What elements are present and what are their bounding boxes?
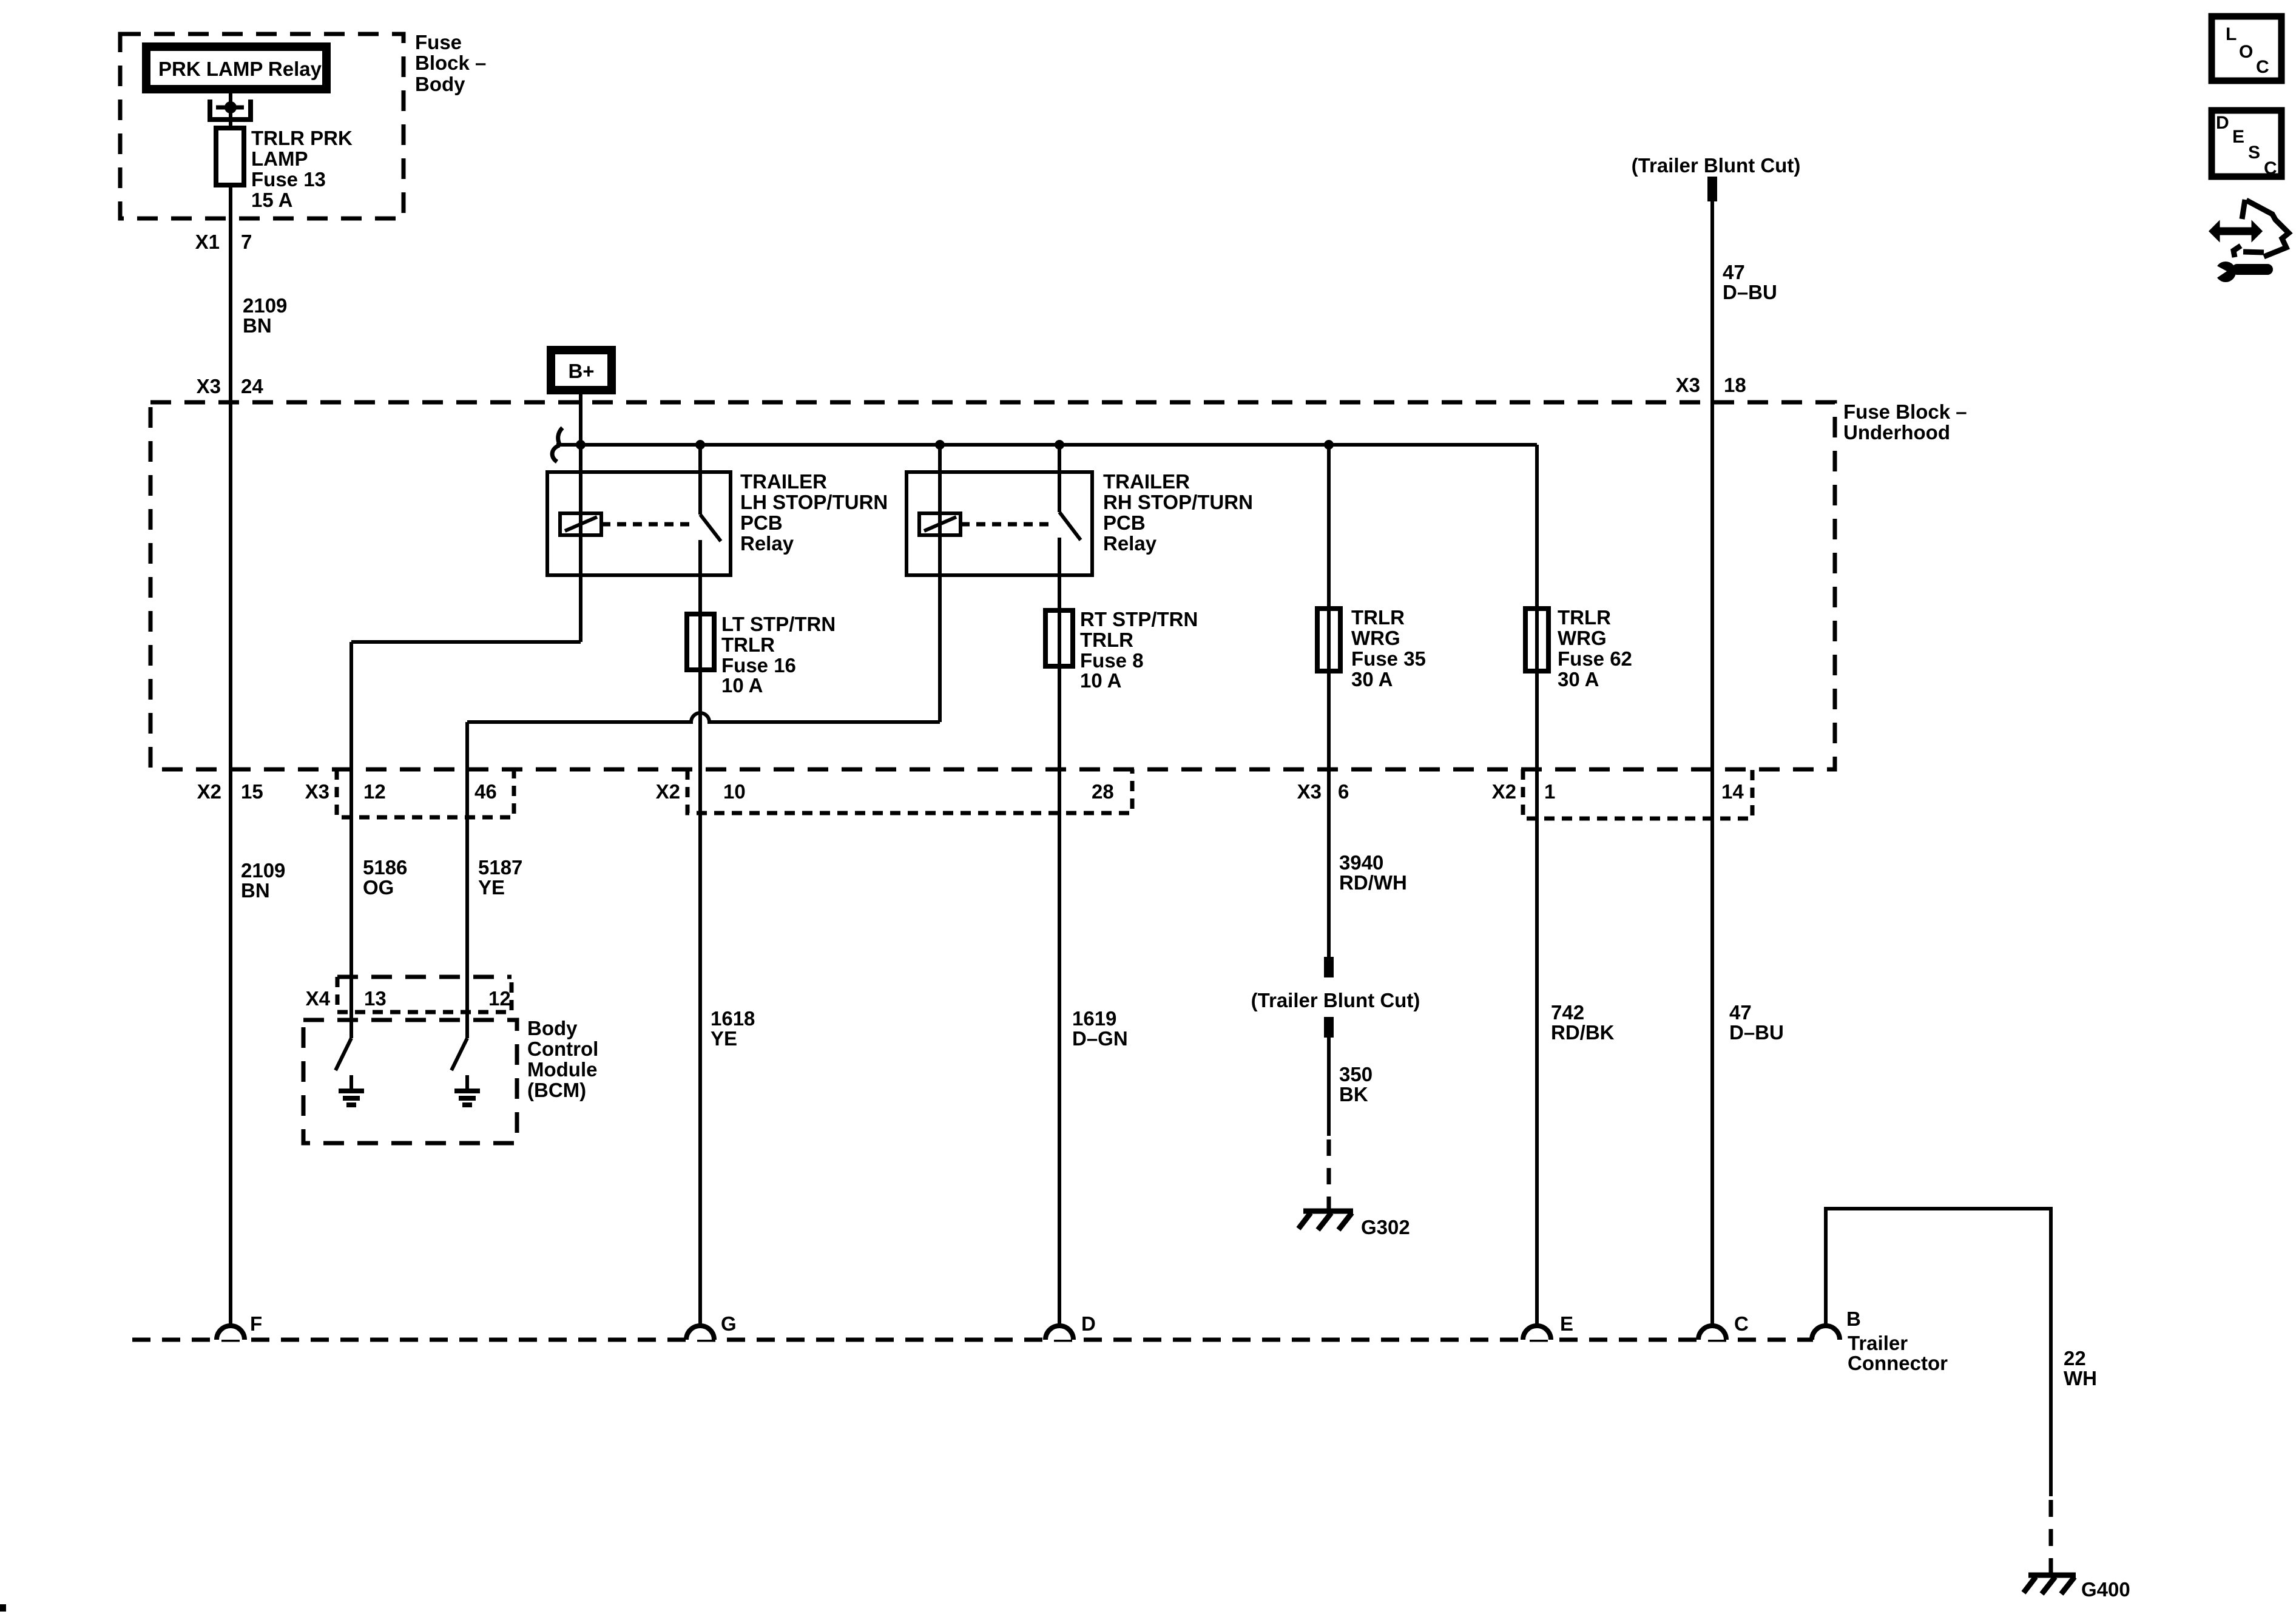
wire 47 D-BU: from blunt cut to trailer connector C	[1710, 201, 1714, 1326]
stray mark bottom-left	[0, 1604, 6, 1612]
relay K1: TRAILER LH STOP/TURN PCB Relay	[547, 470, 888, 575]
wire: LH switch feed from bus	[698, 445, 702, 515]
svg-text:TRLR: TRLR	[721, 633, 775, 656]
junction node: bus/B+	[576, 440, 586, 450]
svg-text:30 A: 30 A	[1558, 668, 1599, 690]
connector X2 box (pins 10,28) underhood	[687, 769, 1132, 813]
pin X1 7	[195, 231, 252, 253]
blunt cut terminal (47 D-BU top)	[1707, 177, 1717, 201]
DESC icon box	[2212, 110, 2281, 178]
fuse block underhood box	[150, 402, 1835, 769]
wire: LH coil feed from bus through relay	[579, 445, 582, 642]
svg-text:E: E	[2232, 127, 2244, 147]
svg-text:Fuse 35: Fuse 35	[1351, 647, 1426, 670]
svg-text:LT STP/TRN: LT STP/TRN	[721, 613, 836, 635]
wire 5186 OG: to BCM pin 13	[349, 642, 353, 1038]
fuse F13: TRLR PRK LAMP Fuse 13 15A	[216, 128, 244, 185]
svg-text:10: 10	[723, 780, 746, 803]
svg-text:L: L	[2226, 24, 2237, 44]
wire 1618 YE: LH switch through fuse16 to trailer connector G	[698, 540, 702, 1326]
svg-text:12: 12	[363, 780, 386, 803]
relay K2: TRAILER RH STOP/TURN PCB Relay	[907, 470, 1253, 575]
svg-text:RH STOP/TURN: RH STOP/TURN	[1103, 491, 1253, 513]
wire label 742 RD/BK	[1551, 1001, 1615, 1044]
svg-text:2109: 2109	[241, 859, 285, 882]
svg-text:12: 12	[488, 987, 511, 1010]
svg-text:D–BU: D–BU	[1723, 281, 1777, 303]
svg-text:PRK LAMP Relay: PRK LAMP Relay	[158, 58, 322, 80]
svg-text:1: 1	[1544, 780, 1555, 803]
K2 coil	[919, 513, 961, 535]
svg-text:X2: X2	[656, 780, 680, 803]
wire label 5186 OG	[363, 856, 407, 899]
svg-text:Fuse 16: Fuse 16	[721, 654, 796, 677]
K1 coil-switch link	[601, 522, 695, 527]
body control module box	[303, 1020, 517, 1143]
svg-text:Relay: Relay	[1103, 532, 1157, 555]
svg-text:47: 47	[1723, 261, 1745, 283]
svg-text:Control: Control	[527, 1038, 598, 1060]
svg-text:5186: 5186	[363, 856, 407, 879]
fuse F35: TRLR WRG Fuse 35 30A	[1317, 606, 1426, 690]
svg-text:WRG: WRG	[1351, 627, 1400, 649]
wire 742 RD/BK: bus corner through fuse62 to trailer connector E	[1535, 445, 1539, 1326]
svg-text:X1: X1	[195, 231, 220, 253]
wire label 22 WH	[2064, 1347, 2097, 1389]
svg-text:5187: 5187	[478, 856, 522, 879]
svg-text:742: 742	[1551, 1001, 1584, 1024]
junction node: bus/RH switch	[1055, 440, 1064, 450]
LOC icon box	[2212, 16, 2281, 81]
svg-text:10 A: 10 A	[1080, 669, 1121, 692]
svg-text:TRLR: TRLR	[1558, 606, 1611, 629]
svg-text:PCB: PCB	[1103, 511, 1146, 534]
connector X4 box (pins 13,12) BCM	[337, 975, 512, 979]
terminal C of trailer connector	[1698, 1326, 1726, 1340]
wire 5187 YE: to BCM pin 12	[465, 722, 469, 1038]
svg-text:10 A: 10 A	[721, 674, 763, 697]
pin X3 24	[197, 375, 264, 397]
svg-text:D–GN: D–GN	[1072, 1027, 1128, 1050]
svg-text:PCB: PCB	[740, 511, 783, 534]
pigtail at left end of bus	[552, 428, 562, 462]
svg-text:Body: Body	[527, 1017, 578, 1039]
wire label 5187 YE	[478, 856, 522, 899]
svg-text:(Trailer Blunt Cut): (Trailer Blunt Cut)	[1632, 154, 1801, 177]
connector X3 box (pins 12,46) underhood	[337, 769, 514, 817]
pin X4 13	[306, 987, 387, 1010]
svg-text:C: C	[2256, 57, 2269, 77]
svg-text:TRLR: TRLR	[1080, 629, 1133, 651]
terminal D of trailer connector	[1045, 1326, 1073, 1340]
svg-text:350: 350	[1339, 1063, 1373, 1085]
svg-text:Module: Module	[527, 1058, 597, 1081]
K1 switch blade	[700, 515, 721, 541]
junction node: bus/LH switch	[695, 440, 705, 450]
svg-text:X4: X4	[306, 987, 331, 1010]
svg-text:Fuse: Fuse	[415, 31, 462, 53]
svg-text:Fuse 62: Fuse 62	[1558, 647, 1632, 670]
fuse block body label	[415, 31, 486, 95]
BCM driver switch for pin 13	[336, 1038, 351, 1070]
svg-text:G400: G400	[2081, 1578, 2130, 1601]
svg-text:18: 18	[1724, 374, 1746, 396]
svg-text:WH: WH	[2064, 1367, 2097, 1389]
svg-text:14: 14	[1721, 780, 1744, 803]
wire 3940 RD/WH: fuse35 down to blunt cut	[1327, 445, 1331, 957]
fuse F62: TRLR WRG Fuse 62 30A	[1525, 606, 1632, 690]
svg-text:BK: BK	[1339, 1083, 1368, 1106]
ground inside BCM (pin 13 driver)	[339, 1075, 364, 1105]
svg-text:B: B	[1846, 1308, 1861, 1330]
svg-text:X2: X2	[197, 780, 221, 803]
svg-text:O: O	[2239, 42, 2253, 62]
BCM label	[527, 1017, 598, 1101]
pin X3 18	[1676, 374, 1746, 396]
adjust/handling icon: double arrow	[2210, 222, 2261, 240]
K2 coil-switch link	[961, 522, 1055, 527]
pin X2 15	[197, 780, 263, 803]
pin X3 12	[305, 780, 386, 803]
blunt cut terminal upper (3940)	[1324, 957, 1334, 977]
svg-text:LAMP: LAMP	[251, 147, 308, 170]
svg-text:TRLR PRK: TRLR PRK	[251, 127, 353, 149]
svg-text:15 A: 15 A	[251, 189, 292, 211]
svg-text:X3: X3	[197, 375, 221, 397]
svg-text:3940: 3940	[1339, 851, 1383, 874]
svg-text:S: S	[2248, 143, 2260, 163]
wire label 2109 BN upper	[243, 294, 287, 337]
junction node: bus/RH coil	[935, 440, 945, 450]
wire label 2109 BN lower	[241, 859, 285, 902]
K1 coil	[560, 513, 601, 535]
svg-text:TRAILER: TRAILER	[1103, 470, 1190, 493]
pin X2 1	[1492, 780, 1556, 803]
svg-text:13: 13	[364, 987, 387, 1010]
junction node: bus/fuse35	[1324, 440, 1334, 450]
svg-text:D: D	[2216, 113, 2229, 133]
svg-text:22: 22	[2064, 1347, 2086, 1369]
wire label 1619 D-GN	[1072, 1007, 1128, 1050]
wire label 1618 YE	[711, 1007, 755, 1050]
svg-text:F: F	[250, 1312, 262, 1335]
terminal B of trailer connector	[1812, 1326, 1840, 1340]
wire 1619 D-GN: RH switch through fuse8 to trailer connector D	[1058, 538, 1061, 1326]
svg-text:28: 28	[1092, 780, 1114, 803]
adjust/handling icon: wrench	[2212, 262, 2273, 282]
wire label 47 D-BU upper	[1723, 261, 1777, 303]
fuse F8: RT STP/TRN TRLR Fuse 8 10A	[1045, 608, 1198, 692]
wire: RH coil feed from bus through relay	[938, 445, 942, 722]
svg-text:1618: 1618	[711, 1007, 755, 1030]
svg-text:RD/BK: RD/BK	[1551, 1021, 1615, 1044]
adjust/handling icon: glove outline	[2234, 200, 2289, 257]
svg-text:X2: X2	[1492, 780, 1516, 803]
svg-text:BN: BN	[243, 314, 272, 337]
svg-text:G: G	[721, 1312, 737, 1335]
wire: RH switch feed from bus	[1058, 445, 1061, 512]
BCM driver switch for pin 12	[451, 1038, 467, 1070]
wire 22 WH dashed continuation	[2049, 1500, 2053, 1574]
svg-text:RD/WH: RD/WH	[1339, 871, 1407, 894]
svg-text:B+: B+	[568, 360, 594, 382]
svg-text:46: 46	[474, 780, 497, 803]
wire 22 WH: connector B up over to G400	[1826, 1209, 2051, 1496]
svg-text:X3: X3	[1676, 374, 1700, 396]
wire label 3940 RD/WH	[1339, 851, 1407, 894]
wire label 350 BK	[1339, 1063, 1373, 1106]
svg-text:G302: G302	[1361, 1216, 1410, 1238]
svg-text:(Trailer Blunt Cut): (Trailer Blunt Cut)	[1251, 989, 1420, 1011]
pin X2 10	[656, 780, 746, 803]
svg-text:1619: 1619	[1072, 1007, 1116, 1030]
svg-text:D–BU: D–BU	[1729, 1021, 1784, 1044]
svg-text:2109: 2109	[243, 294, 287, 317]
svg-text:Fuse 8: Fuse 8	[1080, 649, 1144, 672]
terminal G of trailer connector	[686, 1326, 714, 1340]
svg-text:YE: YE	[711, 1027, 737, 1050]
bus wire B+ distribution	[556, 443, 1537, 447]
ground G302	[1298, 1211, 1410, 1238]
svg-text:30 A: 30 A	[1351, 668, 1393, 690]
wire: B+ to bus	[579, 394, 582, 445]
svg-text:WRG: WRG	[1558, 627, 1607, 649]
svg-text:6: 6	[1338, 780, 1349, 803]
svg-text:Trailer: Trailer	[1848, 1332, 1908, 1354]
svg-text:Body: Body	[415, 73, 465, 95]
wire: relay output stub	[229, 93, 232, 128]
fuse block underhood label	[1843, 400, 1967, 444]
svg-text:E: E	[1560, 1312, 1573, 1335]
svg-text:15: 15	[241, 780, 263, 803]
pin X3 6	[1297, 780, 1349, 803]
ground G400	[2024, 1575, 2130, 1601]
terminal bracket of PRK LAMP Relay output	[210, 100, 251, 120]
svg-text:47: 47	[1729, 1001, 1752, 1024]
svg-text:Underhood: Underhood	[1843, 421, 1950, 444]
svg-text:OG: OG	[363, 876, 394, 899]
svg-text:TRAILER: TRAILER	[740, 470, 827, 493]
wire label 47 D-BU lower	[1729, 1001, 1784, 1044]
terminal E of trailer connector	[1523, 1326, 1551, 1340]
wire: LH coil return horizontal	[351, 640, 581, 644]
trailer connector label	[1848, 1332, 1948, 1374]
svg-text:7: 7	[241, 231, 252, 253]
svg-text:C: C	[2264, 158, 2277, 178]
svg-text:YE: YE	[478, 876, 505, 899]
wire 350 BK dashed continuation	[1327, 1139, 1331, 1211]
svg-text:D: D	[1081, 1312, 1096, 1335]
fuse F16: LT STP/TRN TRLR Fuse 16 10A	[687, 613, 836, 697]
blunt cut terminal lower (350)	[1324, 1017, 1334, 1038]
terminal F of trailer connector	[217, 1326, 245, 1340]
relay K: PRK LAMP Relay box	[146, 47, 326, 89]
svg-text:C: C	[1734, 1312, 1749, 1335]
svg-text:RT STP/TRN: RT STP/TRN	[1080, 608, 1198, 630]
svg-text:24: 24	[241, 375, 263, 397]
svg-text:Relay: Relay	[740, 532, 794, 555]
svg-text:(BCM): (BCM)	[527, 1079, 586, 1101]
svg-text:LH STOP/TURN: LH STOP/TURN	[740, 491, 888, 513]
wire: RH coil return horizontal with hop over 1618	[467, 713, 940, 722]
svg-text:X3: X3	[305, 780, 329, 803]
wire 2109 BN: fuse13 to trailer connector F	[229, 185, 232, 1326]
svg-text:Block –: Block –	[415, 52, 486, 74]
ground inside BCM (pin 12 driver)	[454, 1075, 480, 1105]
svg-text:Fuse 13: Fuse 13	[251, 168, 326, 191]
svg-text:BN: BN	[241, 879, 270, 902]
connector X2 box (pins 1,14) underhood	[1523, 769, 1752, 819]
svg-text:TRLR: TRLR	[1351, 606, 1405, 629]
svg-text:X3: X3	[1297, 780, 1322, 803]
battery feed B+ box	[551, 350, 612, 390]
fuse block body box	[120, 34, 403, 218]
svg-text:Connector: Connector	[1848, 1352, 1948, 1374]
K2 switch blade	[1059, 512, 1081, 540]
svg-text:Fuse Block –: Fuse Block –	[1843, 400, 1967, 423]
wire 350 BK to ground	[1327, 1038, 1331, 1136]
trailer connector line	[132, 1338, 1813, 1342]
